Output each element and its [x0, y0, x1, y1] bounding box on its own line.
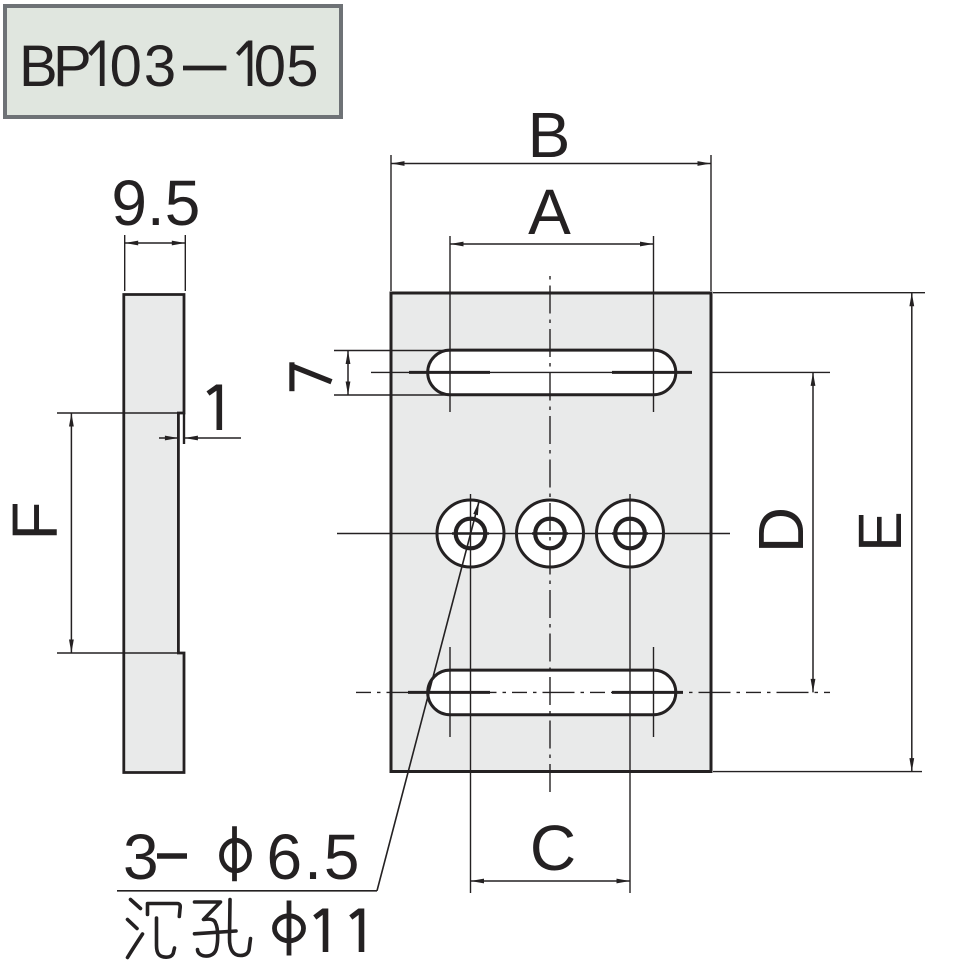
svg-text:B: B	[528, 99, 571, 171]
svg-text:5: 5	[286, 34, 318, 99]
svg-text:9.5: 9.5	[111, 167, 200, 239]
svg-text:F: F	[0, 501, 71, 540]
svg-text:C: C	[530, 812, 576, 884]
svg-text:P: P	[53, 34, 92, 99]
svg-text:B: B	[19, 34, 58, 99]
svg-text:E: E	[846, 511, 914, 552]
svg-text:3: 3	[144, 34, 176, 99]
svg-text:0: 0	[254, 34, 286, 99]
svg-text:3: 3	[123, 821, 159, 893]
svg-text:D: D	[745, 507, 817, 553]
svg-text:6.5: 6.5	[267, 821, 362, 893]
svg-text:0: 0	[110, 34, 142, 99]
svg-text:A: A	[528, 176, 571, 248]
